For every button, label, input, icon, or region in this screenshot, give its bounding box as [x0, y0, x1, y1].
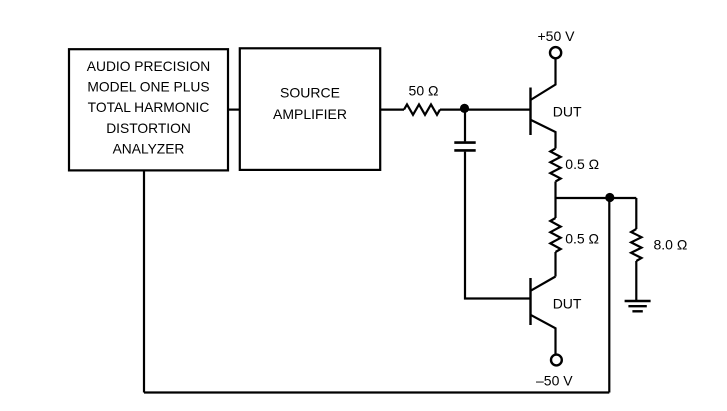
svg-text:DISTORTION: DISTORTION — [106, 121, 191, 136]
svg-text:50 Ω: 50 Ω — [409, 82, 439, 98]
svg-text:MODEL ONE PLUS: MODEL ONE PLUS — [87, 80, 209, 95]
svg-text:+50 V: +50 V — [538, 28, 576, 44]
transistor Q2 emitter — [531, 315, 556, 355]
resistor 50 ohm — [404, 104, 440, 114]
wire source amplifier to R 50 — [380, 108, 404, 110]
svg-text:8.0 Ω: 8.0 Ω — [654, 237, 688, 253]
transistor Q1 (top DUT) base bar — [529, 88, 531, 136]
capacitor C1 — [454, 143, 475, 151]
wire R bottom to Q2 — [554, 252, 556, 277]
resistor 0.5 ohm top — [550, 149, 560, 182]
-50 V terminal circle — [551, 355, 562, 366]
resistor 8.0 ohm — [631, 229, 641, 261]
svg-text:DUT: DUT — [553, 295, 582, 311]
svg-text:DUT: DUT — [553, 103, 582, 119]
svg-text:SOURCE: SOURCE — [280, 84, 340, 100]
wire capacitor to Q2 base corner — [465, 152, 531, 299]
source amplifier text — [273, 84, 347, 122]
svg-text:AMPLIFIER: AMPLIFIER — [273, 106, 347, 122]
wire feedback bottom horizontal — [144, 391, 609, 393]
node input junction — [460, 104, 469, 113]
wire R 50 to Q1 base — [440, 108, 531, 110]
wire node to capacitor — [464, 110, 466, 142]
wire feedback left vertical — [143, 171, 145, 393]
ground — [625, 301, 651, 311]
analyzer box text — [87, 59, 210, 156]
svg-text:0.5 Ω: 0.5 Ω — [565, 231, 599, 247]
svg-text:AUDIO PRECISION: AUDIO PRECISION — [87, 59, 210, 74]
transistor Q2 collector — [531, 277, 556, 291]
source amplifier box — [240, 48, 380, 170]
transistor Q1 emitter — [531, 120, 556, 149]
wire R top to output node line — [554, 182, 556, 199]
wire analyzer to source amplifier — [228, 108, 240, 110]
svg-text:0.5 Ω: 0.5 Ω — [565, 156, 599, 172]
wire feedback right vertical — [608, 198, 610, 393]
wire R 8 to ground — [635, 261, 637, 300]
svg-text:–50 V: –50 V — [536, 372, 573, 388]
transistor Q1 collector — [531, 58, 556, 100]
resistor 0.5 ohm bottom — [550, 218, 560, 252]
wire node to R 8 — [635, 198, 637, 229]
svg-text:ANALYZER: ANALYZER — [113, 141, 185, 156]
node output junction — [605, 193, 614, 202]
wire node line to R bottom — [554, 198, 556, 218]
+50 V terminal circle — [550, 47, 561, 58]
transistor Q2 (bottom DUT) base bar — [529, 278, 531, 325]
svg-text:TOTAL HARMONIC: TOTAL HARMONIC — [88, 100, 210, 115]
analyzer box — [69, 49, 228, 170]
output node line — [556, 197, 637, 199]
